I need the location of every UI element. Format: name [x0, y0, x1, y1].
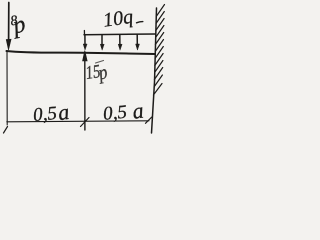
bottom dimension line	[7, 121, 149, 122]
distributed load arrow 3	[118, 35, 122, 50]
left dimension tick	[4, 127, 8, 134]
distributed load left end tick	[83, 31, 85, 36]
label 8P	[9, 11, 28, 39]
label 10q	[102, 6, 135, 32]
distributed load arrow 1	[83, 35, 87, 50]
label 15P	[84, 61, 109, 85]
overbar on 5 of 15P	[96, 61, 104, 64]
svg-text:0,5: 0,5	[32, 103, 57, 126]
force arrow 8P	[6, 3, 11, 51]
distributed load arrow 4	[136, 35, 140, 50]
label 0,5a left	[32, 99, 70, 126]
wall support line	[152, 8, 157, 133]
force arrow 15P with middle extension line	[83, 51, 88, 131]
svg-text:10q: 10q	[102, 6, 135, 32]
right end hook of dimension line	[146, 117, 152, 123]
wall hatching	[153, 5, 164, 96]
middle dimension tick	[81, 118, 90, 127]
label 0,5 a right	[102, 98, 145, 125]
comma dash after 10q	[137, 22, 143, 23]
distributed load arrow 2	[100, 35, 104, 50]
beam	[7, 51, 156, 54]
svg-text:0,5: 0,5	[102, 102, 127, 125]
left dimension extension line	[6, 51, 8, 125]
distributed load top line	[84, 33, 156, 36]
